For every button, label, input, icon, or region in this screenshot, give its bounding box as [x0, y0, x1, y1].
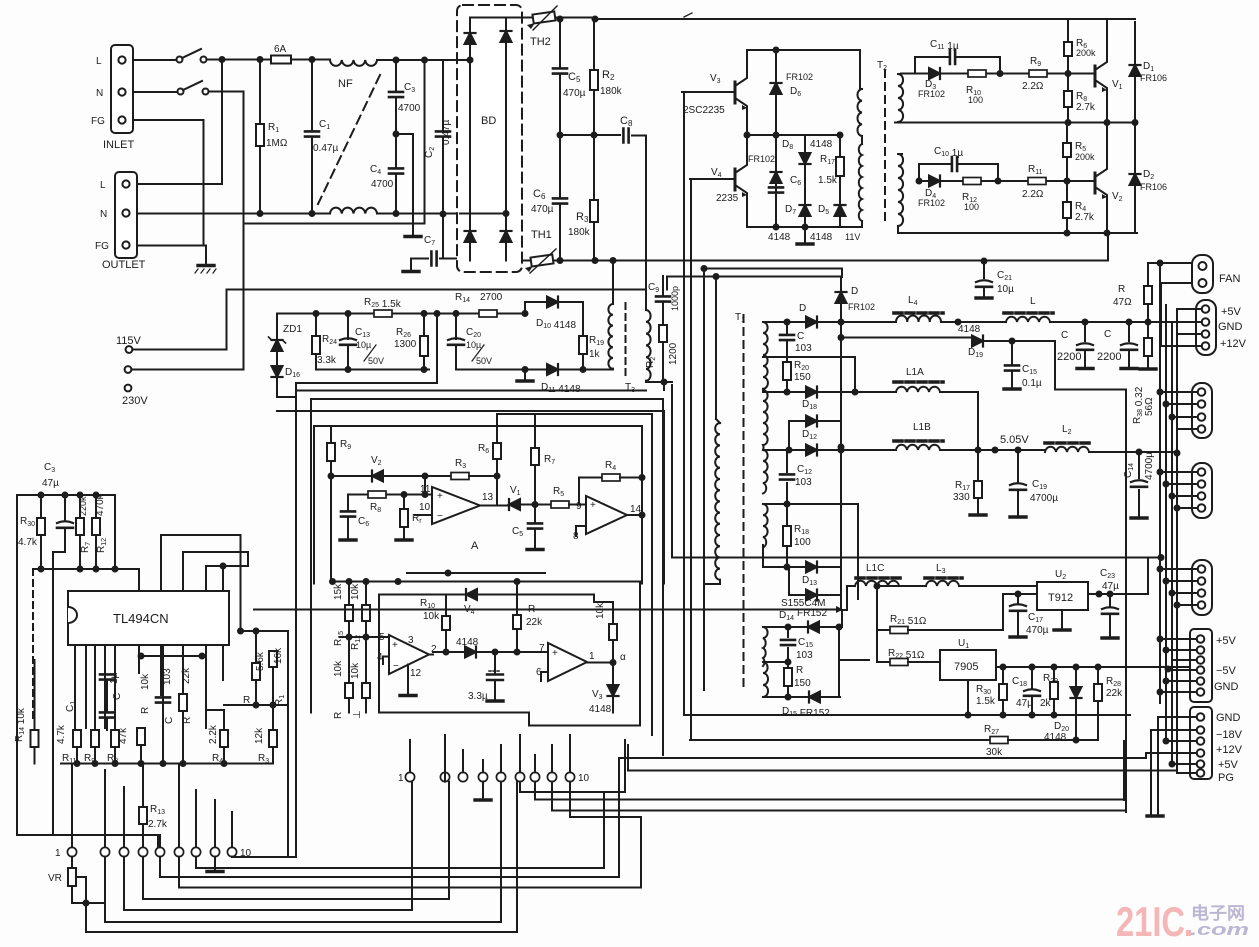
capacitor C10 1µ bypass [919, 164, 998, 181]
diode D rect +12V [763, 321, 841, 323]
svg-text:C18: C18 [1012, 676, 1027, 688]
wire 230V select [131, 224, 243, 370]
svg-text:150: 150 [794, 678, 811, 689]
mid rail [895, 122, 1137, 124]
transistor V1 [1094, 66, 1097, 86]
resistor R9 2.2Ω [1029, 70, 1047, 77]
T2 primary connections [860, 50, 862, 227]
U2 ground pin [1061, 610, 1063, 628]
svg-text:TH1: TH1 [531, 229, 552, 241]
resistor R25 1.5k [374, 310, 392, 317]
svg-text:C11 1µ: C11 1µ [930, 39, 959, 52]
diode V3b [612, 663, 614, 686]
capacitor C 2200 second [1128, 322, 1130, 366]
svg-text:FG: FG [95, 241, 109, 252]
connector J2 +5V GND +12V [1196, 300, 1216, 355]
T1 sec winding F [763, 662, 768, 697]
wire V3 emitter row [747, 134, 840, 136]
resistor R19 1k [582, 302, 584, 370]
svg-text:2200: 2200 [1097, 351, 1121, 363]
outer wire top [296, 390, 646, 392]
svg-text:2k: 2k [1040, 698, 1052, 709]
zener ZD1 [276, 314, 278, 367]
resistor R2b 1200 [662, 342, 664, 382]
svg-text:C20: C20 [466, 327, 481, 339]
svg-text:D12: D12 [802, 429, 817, 441]
svg-text:4148: 4148 [589, 704, 612, 715]
svg-text:21IC: 21IC [1116, 898, 1185, 945]
wire N switch down-right [209, 92, 244, 224]
lower 10k resistors [348, 637, 350, 683]
svg-text:+: + [437, 491, 443, 502]
T2 primary winding upper [857, 89, 862, 136]
svg-text:R21 51Ω: R21 51Ω [890, 614, 927, 627]
ground bus verticals to gnd [1139, 717, 1158, 816]
svg-text:12: 12 [410, 668, 422, 679]
wire FG to ground [133, 120, 204, 246]
svg-text:4.7k: 4.7k [18, 537, 38, 548]
node 115V [126, 346, 133, 353]
capacitor C1 0.47µ [311, 60, 313, 214]
wire bottom rail down to bridge return [1107, 233, 1109, 261]
T3 right winding [646, 310, 651, 381]
resistor R3 180k [593, 135, 595, 261]
svg-text:0.47µ: 0.47µ [313, 143, 338, 154]
wire 115V select [132, 290, 646, 350]
bus verticals right [1160, 263, 1177, 773]
svg-text:11V: 11V [845, 232, 860, 242]
svg-text:470µ: 470µ [1026, 625, 1049, 636]
svg-text:V2: V2 [1112, 191, 1123, 203]
thermistor TH1 [522, 260, 530, 262]
svg-text:470k: 470k [95, 493, 106, 516]
snubber C12 103 [786, 450, 788, 502]
svg-text:1µ: 1µ [109, 672, 120, 684]
capacitor C23 47µ [1109, 594, 1111, 636]
resistor Rd 22k [516, 582, 518, 616]
svg-text:4700µ: 4700µ [1030, 493, 1058, 504]
svg-text:+12V: +12V [1220, 338, 1247, 350]
bridge diode bottom-right [501, 231, 512, 242]
bridge diode top-right [505, 18, 507, 61]
svg-text:200k: 200k [1076, 48, 1096, 58]
wires into test points [17, 719, 158, 847]
svg-text:R8: R8 [370, 502, 381, 514]
svg-text:R: R [1118, 284, 1125, 295]
svg-text:INLET: INLET [103, 139, 134, 151]
svg-text:10k: 10k [423, 611, 440, 622]
svg-text:220k: 220k [78, 496, 88, 516]
row y567 D13 [763, 545, 841, 567]
transistor V4 2235 [734, 169, 737, 190]
A2 output [627, 514, 642, 516]
row y421 D12 [789, 420, 841, 422]
svg-text:R7: R7 [80, 542, 92, 553]
resistor R 10k mid [137, 728, 145, 745]
-5V windings center tap [763, 661, 788, 663]
resistor R 150 [787, 662, 789, 668]
svg-text:D: D [851, 286, 858, 297]
wire fuse to NF [291, 59, 330, 61]
resistor R26 1300 [423, 314, 425, 370]
U1 bottom rail [684, 714, 1130, 716]
svg-text:FR102: FR102 [918, 89, 945, 99]
svg-text:A: A [471, 540, 479, 552]
svg-text:R20: R20 [794, 360, 809, 372]
svg-text:0.1µ: 0.1µ [1022, 378, 1042, 389]
wire D16 return [296, 314, 437, 398]
svg-text:2.2k: 2.2k [208, 724, 219, 744]
resistor R 5.6k [255, 631, 257, 663]
svg-text:R2: R2 [645, 357, 657, 368]
diode V4b [466, 589, 477, 600]
svg-text:FR102: FR102 [918, 198, 945, 208]
svg-text:10µ: 10µ [466, 340, 481, 350]
resistor R8b 47k [111, 730, 119, 747]
svg-text:R9: R9 [1030, 56, 1041, 68]
zener D20 4148 [1075, 667, 1077, 686]
resistor R1b 16k [272, 650, 274, 652]
svg-text:D14: D14 [779, 610, 794, 622]
potentiometer VR [71, 857, 73, 868]
wire y414 [497, 414, 652, 735]
wire T3 right to PWM [664, 382, 672, 390]
resistor R5c [551, 501, 569, 508]
T1 sec winding D [763, 504, 768, 548]
svg-text:T3: T3 [625, 382, 635, 394]
svg-text:D16: D16 [285, 367, 300, 379]
capacitor C2 0.47µ [425, 60, 444, 259]
svg-text:15k: 15k [333, 583, 344, 600]
left outer verticals [296, 391, 311, 713]
svg-text:D6: D6 [790, 86, 801, 98]
IC U1 7905 [940, 650, 996, 680]
center tap +5V winding [763, 504, 858, 599]
svg-text:L4: L4 [908, 295, 918, 307]
transistor V3 2SC2235 [734, 82, 737, 103]
pin stub [222, 566, 224, 591]
svg-text:180k: 180k [600, 86, 623, 97]
svg-text:L1A: L1A [906, 367, 924, 378]
svg-text:100: 100 [964, 202, 979, 212]
resistor R9c [330, 426, 332, 443]
svg-text:N: N [100, 209, 107, 220]
capacitor C13 10µ/50V [347, 314, 349, 370]
svg-text:1200: 1200 [668, 342, 679, 365]
svg-text:−5V: −5V [1216, 665, 1237, 677]
svg-text:7: 7 [539, 643, 545, 654]
svg-text:0.47µ: 0.47µ [441, 120, 452, 145]
svg-text:6A: 6A [274, 44, 287, 55]
capacitor C7 [411, 258, 470, 260]
svg-text:5.05V: 5.05V [1000, 434, 1029, 446]
resistor R17b 330 [977, 450, 979, 481]
svg-text:GND: GND [1214, 681, 1239, 693]
switch S1b on N [133, 91, 177, 93]
resistor R27 30k row [690, 739, 990, 741]
svg-text:C15: C15 [798, 637, 813, 649]
svg-text:2200: 2200 [1057, 351, 1081, 363]
T2 secondary connections [898, 74, 905, 234]
diode V1b [480, 505, 508, 507]
svg-text:C19: C19 [1032, 479, 1047, 491]
svg-text:C14: C14 [1123, 463, 1135, 478]
long wire y268 [704, 269, 842, 278]
svg-text:R4: R4 [605, 460, 616, 472]
capacitor C5 470µ [559, 19, 561, 135]
svg-text:D2: D2 [1143, 169, 1154, 181]
svg-text:2: 2 [431, 644, 437, 655]
maze right bundle [520, 740, 1126, 817]
diode D8 4148 [804, 135, 806, 227]
resistor R5 200k [1066, 123, 1068, 182]
resistor R4 2.7k [1066, 181, 1068, 233]
svg-text:R3: R3 [455, 458, 466, 470]
resistor R7c [534, 414, 536, 448]
diode D1 FR106 [1134, 22, 1136, 123]
capacitor C 2200 first [1084, 322, 1086, 366]
aux rail top [277, 313, 525, 315]
svg-text:R: R [333, 712, 344, 719]
choke L1B [896, 445, 940, 450]
capacitor C11 1µ bypass [915, 57, 1000, 74]
svg-text:R9: R9 [340, 439, 351, 451]
svg-text:+5V: +5V [1216, 635, 1237, 647]
svg-text:4700: 4700 [398, 103, 421, 114]
svg-text:C2: C2 [424, 147, 436, 158]
svg-text:C13: C13 [355, 327, 370, 339]
maze left block [86, 758, 641, 932]
svg-text:R26: R26 [396, 327, 411, 339]
svg-text:10µ: 10µ [997, 284, 1014, 295]
resistor R1 1MΩ [259, 60, 261, 214]
svg-text:7905: 7905 [954, 661, 978, 673]
svg-text:D15 FR152: D15 FR152 [782, 706, 830, 719]
ground stub D7 [804, 227, 806, 242]
svg-text:4700: 4700 [371, 179, 394, 190]
svg-text:FR106: FR106 [1140, 182, 1167, 192]
svg-text:C6: C6 [533, 188, 546, 201]
svg-text:R13: R13 [150, 804, 165, 816]
svg-text:100: 100 [794, 537, 811, 548]
svg-text:C21: C21 [997, 270, 1012, 282]
svg-text:47µ: 47µ [42, 478, 59, 489]
svg-text:R29: R29 [1043, 673, 1058, 685]
svg-text:10k: 10k [140, 673, 151, 690]
svg-text:3.3k: 3.3k [317, 355, 337, 366]
svg-text:C15: C15 [1022, 364, 1037, 376]
svg-text:L: L [100, 180, 106, 191]
svg-text:2.2Ω: 2.2Ω [1022, 81, 1044, 92]
op-amp A3 [389, 635, 429, 674]
svg-text:47µ: 47µ [1016, 698, 1033, 709]
ground FG [198, 265, 214, 267]
svg-text:2.7k: 2.7k [1075, 212, 1095, 223]
resistor R4b 2.2k [220, 730, 228, 747]
svg-text:D8: D8 [782, 139, 793, 151]
svg-text:12k: 12k [254, 727, 265, 744]
resistor R11 2.2Ω [1028, 178, 1046, 185]
wire C3/C4 mid to ground [396, 134, 413, 235]
main HV+ top wire [595, 18, 1135, 20]
svg-text:+5V: +5V [1221, 306, 1242, 318]
svg-text:−18V: −18V [1216, 729, 1243, 741]
diode D7 [800, 205, 811, 216]
svg-text:47k: 47k [118, 727, 129, 744]
svg-text:5.6k: 5.6k [255, 651, 266, 671]
svg-text:R28: R28 [1106, 676, 1121, 688]
resistor R17 1.5k [839, 135, 841, 203]
diode D11 4148 row [456, 369, 613, 371]
svg-text:⊥: ⊥ [352, 710, 363, 719]
svg-text:C5: C5 [568, 71, 581, 84]
svg-text:100: 100 [968, 95, 983, 105]
svg-text:R14 10k: R14 10k [14, 707, 27, 742]
svg-text:4148: 4148 [456, 637, 479, 648]
svg-text:C: C [1104, 329, 1111, 340]
svg-text:R27: R27 [984, 724, 999, 736]
svg-text:10: 10 [419, 502, 431, 513]
driver bottom rail [747, 226, 860, 228]
left feed resistors 15k [348, 582, 350, 606]
vertical x704 [703, 269, 705, 691]
svg-text:C1: C1 [65, 701, 77, 712]
svg-text:50V: 50V [368, 356, 384, 366]
resistor R28 22k [1097, 667, 1099, 684]
bridge left wire in [446, 60, 470, 229]
stubs above tp row2 [410, 735, 570, 772]
T1 sec winding A (+12V) [763, 322, 768, 389]
lower channel wire [919, 180, 1095, 182]
choke L3 [926, 581, 959, 586]
bridge box BD dashed [457, 5, 522, 272]
svg-text:C7: C7 [424, 235, 435, 247]
capacitor C5c [534, 505, 536, 549]
svg-text:1: 1 [55, 848, 61, 859]
wire OUTLET L up [137, 60, 222, 185]
wire VR bottom [72, 902, 105, 904]
wire L to fuse [207, 59, 272, 61]
aux bottom long wire [277, 411, 664, 584]
box A frame [314, 426, 642, 584]
node row 705 [224, 704, 288, 706]
resistor R38 0.32 56Ω [1147, 322, 1149, 338]
capacitor C15b 0.1µ [1011, 341, 1013, 387]
diode D5 zener [835, 205, 846, 216]
resistor R7d [403, 495, 405, 510]
resistor R11b 4.7k [73, 730, 81, 747]
svg-text:150: 150 [794, 372, 811, 383]
svg-text:47µ: 47µ [1102, 581, 1119, 592]
resistor R14b 10k [34, 660, 36, 730]
choke L2 [1045, 447, 1089, 452]
A3 ground [407, 665, 409, 695]
resistor R29 2k [1053, 667, 1055, 682]
bottom rail resistors [61, 763, 273, 765]
A3 input rows [340, 636, 389, 638]
svg-text:D: D [799, 303, 806, 314]
svg-text:U1: U1 [958, 638, 969, 650]
svg-text:115V: 115V [116, 335, 142, 347]
aux sub-box bottom [316, 369, 429, 371]
resistor R24 3.3k [315, 314, 317, 370]
svg-text:C: C [797, 331, 804, 342]
wire L3 down branch [877, 586, 890, 630]
svg-text:R18: R18 [794, 524, 809, 536]
N bus wire [137, 213, 330, 215]
svg-text:GND: GND [1218, 321, 1243, 333]
diode D15 FR152 [763, 696, 840, 698]
diode FR102 lower [771, 172, 782, 183]
capacitor C14 4700µ [1138, 452, 1140, 516]
ground under tp row2 [482, 782, 484, 798]
top rail [17, 494, 115, 496]
IC bottom pin stubs [75, 645, 223, 730]
svg-text:FG: FG [91, 116, 105, 127]
svg-text:GND: GND [1216, 712, 1241, 724]
resistor R13 2.7k [142, 764, 144, 808]
svg-text:R12: R12 [96, 538, 108, 553]
diode D16 [272, 366, 283, 377]
bridge top wire [470, 17, 528, 19]
capacitor C17 470µ [1017, 594, 1019, 635]
svg-text:C3: C3 [44, 462, 55, 474]
svg-text:1.5k: 1.5k [818, 175, 838, 186]
T2 secondary winding lower [898, 154, 903, 226]
svg-text:FR102: FR102 [786, 72, 813, 82]
svg-text:R30: R30 [976, 684, 991, 696]
diode D19 4148 [841, 337, 972, 339]
long wire y277 T1 feed [667, 277, 841, 290]
mid wire C5-R2-C8 [560, 134, 620, 136]
svg-text:TH2: TH2 [530, 36, 551, 48]
svg-text:1: 1 [589, 651, 595, 662]
connector OUTLET [115, 172, 137, 258]
svg-text:+: + [552, 648, 558, 659]
svg-text:FR106: FR106 [1140, 73, 1167, 83]
svg-text:OUTLET: OUTLET [102, 259, 146, 271]
svg-text:−: − [437, 511, 443, 522]
svg-text:30k: 30k [986, 747, 1003, 758]
svg-text:D13: D13 [802, 575, 817, 587]
connector J4b six pins [1190, 629, 1212, 702]
T1 core dashed [743, 315, 745, 690]
svg-text:C3: C3 [404, 82, 415, 94]
svg-text:4148: 4148 [768, 232, 791, 243]
svg-text:R10: R10 [420, 598, 435, 610]
resistor R22 510 [877, 630, 890, 662]
svg-text:L1C: L1C [866, 563, 884, 574]
left feed resistor 10k [365, 582, 367, 606]
resistor R31 4.7k [40, 495, 42, 518]
bottom rail of output stage [905, 232, 1137, 234]
svg-text:230V: 230V [122, 395, 148, 407]
ground aux [524, 370, 526, 380]
S155C4M wire [254, 609, 836, 611]
svg-text:ZD1: ZD1 [283, 324, 302, 335]
svg-text:C1: C1 [319, 119, 330, 131]
svg-text:U2: U2 [1055, 569, 1066, 581]
svg-text:330: 330 [953, 492, 970, 503]
capacitor C19 4700µ [1017, 450, 1019, 515]
resistor R30 1.5k [1002, 667, 1004, 684]
capacitor C 1µ upper [100, 674, 114, 679]
T2 primary winding lower [859, 144, 862, 221]
resistor R10c 10k [445, 595, 447, 617]
svg-text:C8: C8 [620, 115, 633, 128]
capacitor C20 10µ/50V [455, 314, 457, 370]
svg-text:22k: 22k [1106, 688, 1123, 699]
